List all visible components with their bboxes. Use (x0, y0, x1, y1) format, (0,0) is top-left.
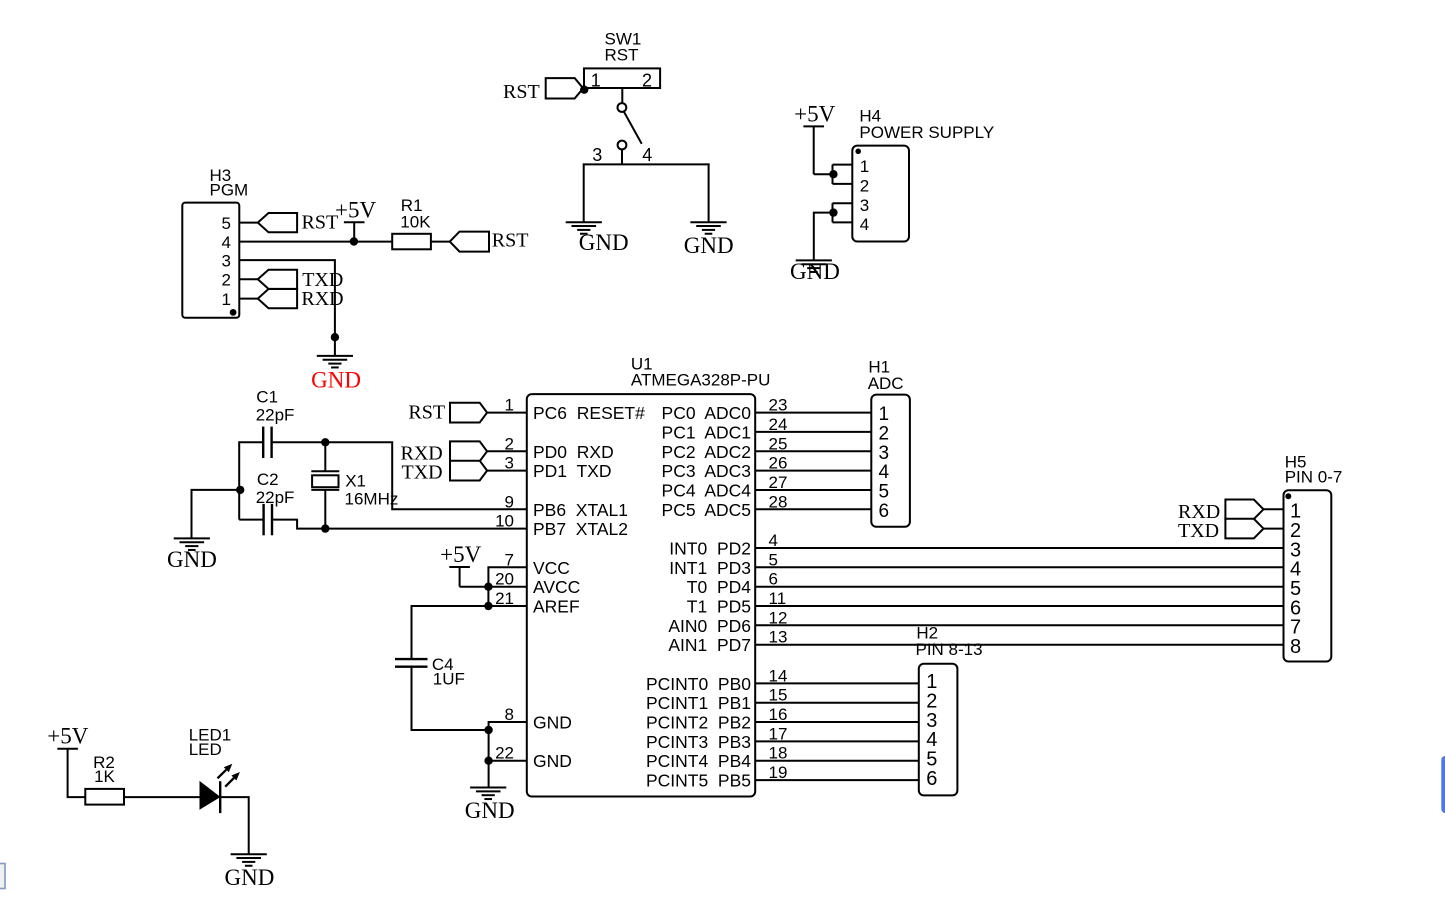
connector H4 designator (859, 107, 994, 143)
svg-text:4: 4 (879, 462, 890, 483)
connector H5 body (1284, 490, 1332, 661)
label RST at SW1 (503, 81, 540, 103)
svg-text:PGM: PGM (210, 181, 249, 200)
wires U1 to H5 (755, 548, 1283, 645)
switch SW1 pin numbers 3 4 (592, 145, 652, 165)
wire H3 pin5 stub (239, 222, 257, 224)
capacitor C4 designator (432, 655, 465, 688)
svg-text:GND: GND (465, 798, 515, 823)
svg-text:5: 5 (222, 214, 231, 233)
wire SW1 pins 3-4 bar (583, 163, 710, 165)
capacitor C1 designator (256, 388, 295, 425)
svg-text:AVCC: AVCC (533, 577, 580, 597)
LED LED1 anode triangle (200, 782, 220, 809)
svg-text:PCINT3 PB3: PCINT3 PB3 (646, 732, 751, 752)
IC U1 right pin names (646, 403, 751, 790)
wire GND pin22 stub (489, 760, 527, 762)
label TXD at H5 (1178, 520, 1219, 542)
IC U1 left pin numbers (495, 396, 514, 763)
svg-text:GND: GND (533, 713, 572, 733)
connector H3 pin numbers (222, 214, 231, 309)
wire H4 pins1-2 bracket (832, 165, 834, 184)
svg-text:22pF: 22pF (256, 488, 295, 507)
svg-text:T0 PD4: T0 PD4 (687, 577, 751, 597)
svg-text:6: 6 (926, 768, 937, 790)
svg-text:AIN1 PD7: AIN1 PD7 (668, 635, 751, 655)
svg-text:6: 6 (879, 501, 890, 522)
wire SW1 right leg (708, 163, 710, 222)
connector H4 body (852, 146, 909, 242)
wires U1 to H2 (755, 683, 919, 780)
junction at SW1 pin1 (580, 86, 588, 94)
wire VCC pin7 (488, 567, 526, 606)
capacitor C1 plates (263, 427, 271, 458)
crystal X1 body (312, 475, 338, 487)
svg-text:5: 5 (879, 482, 890, 503)
wire AREF pin21 to C4 (412, 606, 527, 659)
wire SW1 common stem (621, 88, 623, 103)
ground symbol crystal (174, 538, 210, 550)
connector H5 pin numbers (1290, 501, 1301, 658)
svg-text:PC4 ADC4: PC4 ADC4 (662, 481, 752, 501)
junction H4 pins1-2 (829, 170, 837, 178)
ground symbol LED (231, 854, 267, 866)
label TXD at H3 pin2 (302, 269, 343, 291)
svg-text:PC0 ADC0: PC0 ADC0 (662, 403, 752, 423)
svg-text:22pF: 22pF (256, 405, 295, 424)
wire H5 pin1 stub (1264, 508, 1284, 510)
svg-text:GND: GND (167, 547, 217, 572)
label +5V at VCC (440, 542, 481, 567)
svg-text:3: 3 (879, 443, 890, 464)
switch SW1 body (584, 68, 660, 88)
label RST at H3 pin5 (302, 212, 339, 234)
IC U1 designator (631, 354, 771, 389)
svg-text:9: 9 (505, 492, 514, 511)
ground symbol SW1 right (690, 222, 726, 234)
svg-text:1K: 1K (94, 767, 115, 786)
wire H4 pins3-4 bracket (832, 203, 834, 222)
svg-text:+5V: +5V (47, 724, 88, 749)
IC U1 body (527, 394, 755, 796)
crystal X1 top plate (311, 470, 339, 472)
svg-text:1: 1 (879, 404, 890, 425)
ground symbol SW1 left (566, 222, 602, 234)
IC U1 left pin names (533, 403, 645, 771)
connector H1 body (871, 395, 910, 527)
svg-text:PCINT0 PB0: PCINT0 PB0 (646, 674, 751, 694)
svg-text:RST: RST (503, 81, 540, 103)
svg-text:PCINT5 PB5: PCINT5 PB5 (646, 771, 751, 791)
label TXD at U1 pin3 (402, 461, 443, 483)
wire H5 pin2 stub (1264, 528, 1284, 530)
connector H5 designator (1285, 453, 1343, 487)
wire H3 pin1 stub (239, 298, 257, 300)
ground symbol below H3 (red label) (317, 356, 353, 368)
label RST right of R1 (492, 229, 529, 251)
junction H4 pins3-4 (829, 208, 837, 216)
svg-text:PD1 TXD: PD1 TXD (533, 461, 611, 481)
svg-text:PC2 ADC2: PC2 ADC2 (662, 442, 751, 462)
label GND below H4 (790, 259, 840, 284)
LED LED1 designator (189, 726, 232, 760)
net flag RST right of R1 (450, 232, 489, 252)
svg-text:2: 2 (222, 271, 231, 290)
svg-text:1: 1 (860, 157, 869, 176)
connector H2 pin numbers (926, 671, 937, 790)
svg-text:4: 4 (860, 215, 869, 234)
label GND red (311, 367, 361, 392)
wire H4 bracket to GND (814, 213, 834, 261)
power symbol +5V at VCC (449, 567, 488, 587)
wire C2 right to chip XTAL2 (272, 520, 527, 529)
resistor R2 body (85, 789, 124, 805)
svg-text:INT1 PD3: INT1 PD3 (669, 558, 751, 578)
wire LED cathode to GND (220, 797, 249, 854)
wire SW1 left leg (583, 163, 585, 222)
svg-text:RST: RST (302, 212, 339, 234)
switch SW1 contact circle lower (618, 141, 627, 150)
svg-text:PCINT4 PB4: PCINT4 PB4 (646, 751, 751, 771)
svg-text:RXD: RXD (301, 288, 343, 310)
svg-text:GND: GND (533, 751, 572, 771)
label GND crystal (167, 547, 217, 572)
svg-text:GND: GND (790, 259, 840, 284)
svg-text:RST: RST (408, 401, 445, 423)
label RXD at H5 (1178, 501, 1220, 523)
connector H3 pin-1 polarity dot (230, 309, 237, 316)
svg-text:PIN 8-13: PIN 8-13 (916, 640, 983, 659)
svg-text:LED: LED (189, 740, 222, 759)
connector H4 polarity dot (855, 149, 861, 155)
svg-text:INT0 PD2: INT0 PD2 (669, 539, 751, 559)
svg-text:10: 10 (495, 512, 514, 531)
label GND SW1 left (579, 230, 629, 255)
wire GND pin8 (489, 722, 527, 788)
svg-text:PB6 XTAL1: PB6 XTAL1 (533, 500, 628, 520)
label RXD at H3 pin1 (301, 288, 343, 310)
connector H3 designator label (210, 166, 249, 200)
svg-text:PD0 RXD: PD0 RXD (533, 442, 614, 462)
svg-text:2: 2 (879, 423, 890, 444)
svg-text:PCINT1 PB1: PCINT1 PB1 (646, 693, 751, 713)
label +5V at LED (47, 724, 88, 749)
ground symbol below H4 (796, 260, 832, 272)
connector H5 polarity dot (1285, 493, 1291, 499)
wire H4 pin2 stub (833, 183, 853, 185)
blue scrollbar thumb at right edge (1441, 756, 1445, 813)
wire U1 pin1 stub (487, 412, 527, 414)
wire +5V into H4 bracket (814, 173, 834, 175)
svg-text:4: 4 (222, 233, 231, 252)
capacitor C2 designator (256, 470, 295, 507)
IC U1 right pin numbers (769, 396, 788, 782)
junction on H3 pin3 wire (331, 333, 339, 341)
svg-text:3: 3 (592, 145, 602, 165)
partial UI widget at left edge (0, 864, 5, 889)
net flag RST at H3 pin5 (258, 213, 297, 232)
svg-text:10K: 10K (400, 213, 431, 232)
svg-text:ATMEGA328P-PU: ATMEGA328P-PU (631, 370, 771, 389)
label RXD at U1 pin2 (401, 442, 443, 464)
junction X1 bottom (321, 524, 329, 532)
svg-text:AREF: AREF (533, 597, 580, 617)
label GND LED (225, 865, 275, 890)
svg-text:PCINT2 PB2: PCINT2 PB2 (646, 713, 751, 733)
label RST at U1 pin1 (408, 401, 445, 423)
wire H3 pin2 stub (239, 278, 257, 280)
switch SW1 designator (605, 29, 642, 64)
wire C1 left (239, 441, 263, 443)
wire X1 bottom (324, 490, 326, 529)
svg-text:2: 2 (642, 70, 652, 90)
junction C4/GND (484, 726, 492, 734)
svg-text:+5V: +5V (440, 542, 481, 567)
svg-text:PC3 ADC3: PC3 ADC3 (662, 461, 751, 481)
net flag RST at SW1 pin1 (546, 78, 584, 98)
svg-text:GND: GND (311, 367, 361, 392)
label GND SW1 right (684, 233, 734, 258)
wire H4 pin3 stub (833, 202, 853, 204)
svg-text:2: 2 (860, 177, 869, 196)
connector H2 designator (916, 624, 983, 659)
svg-text:AIN0 PD6: AIN0 PD6 (668, 616, 751, 636)
junction at H3 pin4 / +5V (350, 237, 358, 245)
svg-text:+5V: +5V (794, 101, 835, 126)
svg-text:C2: C2 (257, 470, 279, 489)
wire U1 pin2 stub (487, 450, 527, 452)
power symbol +5V at LED (57, 749, 85, 797)
junction AVCC (484, 583, 492, 591)
net flag TXD at H5 pin2 (1225, 519, 1263, 539)
wire R1 to RST flag (431, 241, 450, 243)
svg-text:POWER SUPPLY: POWER SUPPLY (859, 123, 994, 142)
svg-text:1: 1 (591, 70, 601, 90)
label +5V at H4 (794, 101, 835, 126)
wire H4 pin4 stub (833, 221, 853, 223)
svg-text:T1 PD5: T1 PD5 (687, 597, 751, 617)
crystal X1 bottom plate (311, 489, 339, 491)
svg-text:GND: GND (579, 230, 629, 255)
svg-text:PC1 ADC1: PC1 ADC1 (662, 422, 751, 442)
connector H1 pin numbers (879, 404, 890, 522)
connector H2 body (919, 664, 958, 796)
resistor R2 designator (93, 753, 115, 786)
LED LED1 cathode bar (219, 781, 221, 813)
svg-text:PIN 0-7: PIN 0-7 (1285, 468, 1343, 487)
svg-text:GND: GND (225, 865, 275, 890)
svg-text:3: 3 (860, 196, 869, 215)
junction pin22 (484, 757, 492, 765)
switch SW1 pin numbers 1 2 (591, 70, 652, 90)
svg-text:TXD: TXD (1178, 520, 1219, 542)
net flag RXD at H5 pin1 (1225, 500, 1263, 520)
capacitor C4 plates (395, 659, 428, 667)
svg-text:GND: GND (684, 233, 734, 258)
svg-text:PB7 XTAL2: PB7 XTAL2 (533, 519, 628, 539)
wire R2 to LED (124, 796, 201, 798)
svg-text:3: 3 (222, 251, 231, 270)
net flag TXD at H3 pin2 (258, 270, 297, 289)
ground symbol below U1 (470, 788, 506, 800)
svg-text:X1: X1 (345, 472, 366, 491)
svg-text:RST: RST (605, 46, 639, 65)
wire SW1 lower stem (621, 149, 623, 164)
svg-text:8: 8 (1290, 636, 1301, 658)
wire C1 right to chip XTAL1 (272, 442, 527, 509)
svg-text:TXD: TXD (402, 461, 443, 483)
wires U1 to H1 (755, 413, 871, 510)
wire H4 pin1 stub (833, 164, 853, 166)
capacitor C2 plates (264, 504, 272, 535)
net flag RXD at U1 pin2 (450, 441, 487, 461)
svg-text:4: 4 (642, 145, 652, 165)
connector H1 designator (868, 357, 904, 393)
wire H3 pin4 to R1 (239, 241, 392, 243)
label +5V at H3 pin4 (335, 197, 376, 222)
power symbol +5V at H4 (803, 126, 824, 174)
wire X1 top (324, 442, 326, 471)
svg-text:VCC: VCC (533, 558, 570, 578)
net flag TXD at U1 pin3 (450, 461, 487, 481)
power symbol +5V at H3 pin4 (344, 222, 365, 241)
junction GND tap (236, 486, 244, 494)
wire GND tap (192, 490, 240, 539)
wire H3 pin3 to GND (239, 260, 335, 356)
net flag RST at U1 pin1 (450, 403, 487, 423)
svg-text:PC5 ADC5: PC5 ADC5 (662, 500, 751, 520)
crystal X1 designator (345, 472, 399, 509)
wire U1 pin3 stub (487, 470, 527, 472)
svg-text:C1: C1 (256, 388, 278, 407)
svg-text:PC6 RESET#: PC6 RESET# (533, 403, 645, 423)
svg-text:1: 1 (222, 290, 231, 309)
switch SW1 lever (624, 112, 642, 144)
resistor R1 body (392, 234, 431, 250)
connector H4 pin numbers (860, 157, 869, 234)
svg-text:ADC: ADC (868, 374, 904, 393)
wire AVCC pin20 stub (488, 586, 526, 588)
svg-text:+5V: +5V (335, 197, 376, 222)
svg-text:16MHz: 16MHz (345, 490, 399, 509)
LED LED1 emission arrows (218, 764, 240, 787)
label GND below U1 (465, 798, 515, 823)
resistor R1 designator (400, 196, 431, 232)
junction AREF (484, 602, 492, 610)
net flag RXD at H3 pin1 (258, 289, 297, 308)
wire left vertical C1-C2 (238, 441, 240, 519)
svg-text:RST: RST (492, 229, 529, 251)
wire C2 left (239, 519, 263, 521)
junction C1/X1 top (321, 438, 329, 446)
connector H3 body (182, 203, 239, 318)
switch SW1 contact circle upper (618, 103, 627, 112)
svg-text:1UF: 1UF (433, 670, 465, 689)
wire C4 bottom to GND net (412, 667, 489, 730)
